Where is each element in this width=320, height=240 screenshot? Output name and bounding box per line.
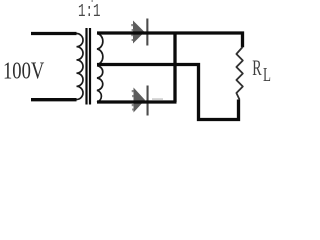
- svg-text:R: R: [252, 56, 262, 81]
- wire: D2 output rail (junction vertical): [173, 33, 176, 102]
- transformer T1 secondary top winding: [97, 34, 103, 65]
- diode D1 cathode bar: [146, 19, 148, 46]
- transformer T1 secondary bottom winding: [97, 66, 103, 102]
- wire: primary bottom lead: [31, 98, 77, 101]
- wire: secondary top to load (through D1): [97, 33, 243, 47]
- wire: primary top lead: [31, 32, 77, 35]
- diode D2 cathode bar: [147, 86, 149, 116]
- svg-text:L: L: [263, 63, 271, 85]
- transformer T1 core: [85, 28, 87, 105]
- svg-text:1:1: 1:1: [78, 1, 100, 22]
- transformer T1 primary winding: [77, 34, 84, 100]
- scan speck: [92, 0, 93, 2]
- svg-text:100V: 100V: [3, 57, 45, 84]
- wire: center tap return to load bottom: [97, 65, 239, 120]
- diode D1 (top) body: [133, 21, 145, 44]
- scan artifact dash: [152, 99, 163, 100]
- resistor RL zigzag: [236, 47, 242, 100]
- diode D2 (bottom) body: [134, 88, 146, 113]
- wire: secondary bottom through D2: [97, 100, 177, 103]
